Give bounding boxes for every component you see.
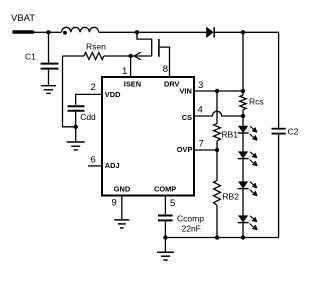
svg-text:COMP: COMP <box>154 184 176 193</box>
svg-text:2: 2 <box>91 82 96 93</box>
svg-text:C2: C2 <box>288 127 299 137</box>
svg-text:OVP: OVP <box>177 145 193 154</box>
resistor Rcs <box>240 95 246 110</box>
svg-text:7: 7 <box>199 138 204 149</box>
node E (Cdd/Rsen-return/ground junction) <box>74 125 78 129</box>
inductor L1 <box>62 27 99 32</box>
LED D4 <box>238 181 258 195</box>
wire diode to node C <box>214 31 243 33</box>
op-amp U1 (controller IC body) <box>102 77 194 196</box>
ground (pin 9) <box>114 220 129 228</box>
wire Q1 source with arrow <box>131 55 152 57</box>
svg-text:RB2: RB2 <box>222 191 239 201</box>
transistor Q1 (MOSFET) drain-source channel path <box>137 32 152 56</box>
wire VBAT bar to node A <box>33 31 49 33</box>
wire LED D3 to LED D4 <box>242 159 244 182</box>
ground (C1) <box>41 86 56 94</box>
bottom rail wire <box>165 237 278 239</box>
inductor polarity dot <box>63 31 67 35</box>
wire Rsen left leg (corner to resistor) <box>63 55 85 57</box>
pin 9 GND stub <box>121 196 123 220</box>
node J (OVP/RB1/RB2 junction) <box>215 148 219 152</box>
pin 2 VDD stub wire to Cdd <box>76 94 101 104</box>
svg-text:RB1: RB1 <box>221 129 238 139</box>
LED D2 <box>238 126 258 140</box>
node I (CS/Rcs rail junction) <box>241 114 245 118</box>
svg-text:DRV: DRV <box>164 80 180 89</box>
wire node E to ground <box>75 127 77 142</box>
svg-text:4: 4 <box>198 105 203 116</box>
node C (diode/Rcs rail/C2 junction) <box>241 30 245 34</box>
svg-text:VIN: VIN <box>180 87 192 96</box>
svg-text:CS: CS <box>182 113 192 122</box>
svg-text:C1: C1 <box>25 52 36 62</box>
wire node B to diode D1 <box>137 31 207 33</box>
svg-text:ISEN: ISEN <box>124 80 141 89</box>
resistor Rsen <box>84 53 104 60</box>
diode D1 <box>207 27 215 37</box>
wire node A down to C1 <box>48 32 50 62</box>
pin 5 COMP stub <box>164 196 166 215</box>
wire Ccomp to node F <box>164 221 166 237</box>
wire RB1 to node J to RB2 <box>216 141 218 181</box>
svg-text:Rcs: Rcs <box>249 97 264 107</box>
wire node A to inductor <box>49 31 62 33</box>
VBAT thick terminal bar <box>14 30 33 34</box>
pin 6 ADJ stub <box>88 165 101 167</box>
capacitor Cdd <box>68 106 85 111</box>
node D (Rsen/ISEN/Q1 source junction) <box>128 54 132 58</box>
ground (Cdd) <box>67 142 85 150</box>
LED D5 <box>238 215 258 229</box>
LED D3 <box>238 151 258 165</box>
node L (LED string/bottom rail junction) <box>241 235 245 239</box>
source current arrowhead <box>134 52 141 60</box>
wire Rsen left leg down to node E <box>63 56 76 127</box>
wire Rcs to node I <box>242 110 244 126</box>
wire RB2 to bottom rail <box>216 205 218 237</box>
svg-text:Ccomp: Ccomp <box>177 213 204 223</box>
wire C2 to bottom rail <box>278 135 280 238</box>
node A (VBAT/C1/L1 junction) <box>46 30 50 34</box>
node B (L1/Q1 drain/diode junction) <box>135 30 139 34</box>
wire Rcs rail (node C down to Rcs) <box>242 32 244 95</box>
svg-text:Rsen: Rsen <box>86 42 106 52</box>
wire LED D4 to LED D5 <box>242 189 244 216</box>
capacitor Ccomp <box>158 216 173 221</box>
wire Cdd to node E <box>75 112 77 127</box>
node K (RB2/bottom rail junction) <box>215 235 219 239</box>
svg-text:ADJ: ADJ <box>105 161 120 170</box>
svg-text:8: 8 <box>163 64 168 75</box>
wire LED D5 to node L <box>242 223 244 238</box>
svg-text:6: 6 <box>91 154 96 165</box>
wire pin 1 ISEN stub <box>130 56 132 76</box>
node G (VIN/RB rail junction) <box>215 89 219 93</box>
resistor RB1 <box>214 124 221 141</box>
pin 7 OVP line <box>194 149 217 151</box>
svg-text:3: 3 <box>198 80 203 91</box>
wire Rsen to node D <box>104 55 131 57</box>
wire RB rail upper (node G to RB1) <box>216 91 218 124</box>
capacitor C1 <box>41 64 59 69</box>
wire node F to ground <box>164 238 166 252</box>
capacitor C2 <box>272 129 286 134</box>
pin 4 CS line with hop over RB rail <box>194 111 243 116</box>
svg-text:9: 9 <box>112 198 117 209</box>
transistor Q1 gate plate <box>158 39 160 57</box>
resistor RB2 <box>214 180 221 205</box>
wire inductor to node B <box>99 31 137 33</box>
svg-text:1: 1 <box>122 66 127 77</box>
node H (VIN/Rcs rail junction) <box>241 89 245 93</box>
svg-text:GND: GND <box>114 184 131 193</box>
node F (Ccomp/bottom rail junction) <box>163 235 167 239</box>
svg-text:22nF: 22nF <box>182 224 201 234</box>
transistor Q1 gate lead to pin 8 <box>160 47 170 76</box>
svg-text:VDD: VDD <box>105 90 121 99</box>
svg-text:Cdd: Cdd <box>80 112 96 122</box>
pin 3 VIN line <box>194 90 243 92</box>
wire C1 to ground <box>48 70 50 85</box>
wire LED D2 to LED D3 <box>242 133 244 152</box>
wire node C to C2 top corner <box>243 32 279 128</box>
ground (Ccomp) <box>157 252 174 260</box>
svg-text:VBAT: VBAT <box>11 13 35 24</box>
svg-text:5: 5 <box>170 198 175 209</box>
